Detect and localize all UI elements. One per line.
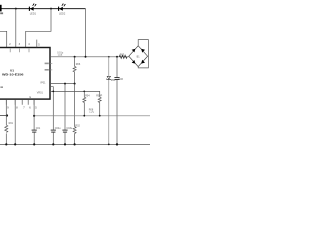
node riser xyxy=(85,56,87,58)
svg-text:LED2: LED2 xyxy=(59,12,66,15)
svg-text:R01: R01 xyxy=(9,122,14,125)
wire OSC line to bridge xyxy=(50,56,129,58)
resistor R02 bottom xyxy=(73,124,80,144)
pin stub right 2 xyxy=(50,69,52,71)
bridge rectifier B1 xyxy=(129,46,148,67)
wire left edge jog to IC pin xyxy=(0,31,7,47)
wire node B jog to IC pin xyxy=(26,9,51,48)
svg-text:G: G xyxy=(29,96,31,99)
svg-text:1.2V: 1.2V xyxy=(89,111,94,114)
LED D2 xyxy=(59,4,66,16)
node C xyxy=(64,83,66,85)
node zener top xyxy=(108,56,110,58)
wire ground bus xyxy=(0,143,150,145)
zener VR2 chain wire xyxy=(108,57,110,144)
capacitor C02 xyxy=(51,127,61,144)
diode bridge arm bottom-right xyxy=(141,60,145,64)
pin name marks inside right edge xyxy=(45,63,49,65)
wire cap3 chain xyxy=(64,84,66,130)
wire pin9 chain xyxy=(5,100,7,144)
node cap top xyxy=(116,56,118,58)
node R xyxy=(116,143,118,145)
svg-text:U1: U1 xyxy=(10,68,14,72)
wire rail corner down to OSC line xyxy=(85,9,87,57)
svg-text:R04P: R04P xyxy=(96,95,102,98)
pin stubs inside top edge xyxy=(10,49,29,53)
wire R06 chain down xyxy=(74,84,76,127)
op IC U1 body xyxy=(0,48,50,100)
svg-text:WD-10-E356: WD-10-E356 xyxy=(2,73,24,77)
svg-text:LED1: LED1 xyxy=(30,12,37,15)
node G xyxy=(6,114,8,116)
capacitor C01 xyxy=(32,127,41,144)
wire left mid stub xyxy=(0,115,7,117)
node K xyxy=(5,143,7,145)
wire node A down to IC pin xyxy=(15,9,17,48)
pin stub ANT xyxy=(36,40,38,48)
resistor R05 inline xyxy=(119,53,127,58)
wire VPP pin run xyxy=(50,83,75,85)
node F xyxy=(83,91,85,93)
diode bridge arm bottom-left xyxy=(132,60,136,64)
node O xyxy=(64,143,66,145)
svg-text:R02: R02 xyxy=(75,124,80,127)
resistor R06 xyxy=(73,57,81,84)
node N xyxy=(52,143,54,145)
node D xyxy=(74,83,76,85)
resistor R0A xyxy=(83,91,90,115)
capacitor C06 chain wire xyxy=(116,57,118,144)
node B xyxy=(50,8,52,10)
pin stub right 1 xyxy=(50,63,52,65)
node M xyxy=(33,143,35,145)
resistor R0B xyxy=(96,95,102,116)
svg-text:VR01: VR01 xyxy=(37,91,44,94)
node Q xyxy=(108,144,110,146)
pin name mark left inside xyxy=(0,86,3,88)
node A xyxy=(15,8,17,10)
svg-text:R06: R06 xyxy=(76,63,81,66)
node E xyxy=(52,91,54,93)
wire pin5 chain xyxy=(33,100,35,130)
LED D1 xyxy=(29,4,36,16)
wire mid bus xyxy=(34,115,150,117)
node L xyxy=(14,143,16,145)
pin stubs bottom xyxy=(6,100,34,105)
node R06 top xyxy=(74,56,76,58)
wire pin8 chain xyxy=(14,100,16,144)
svg-text:R04: R04 xyxy=(85,95,90,98)
node P xyxy=(74,143,76,145)
wire top rail xyxy=(0,8,86,10)
wire jog pin xyxy=(50,87,53,130)
svg-text:C05: C05 xyxy=(58,54,63,57)
node J xyxy=(99,115,101,117)
svg-text:IP01: IP01 xyxy=(41,81,47,84)
resistor R01 xyxy=(5,122,14,132)
wire bridge top loop xyxy=(138,40,148,68)
capacitor C03 xyxy=(62,127,72,144)
diode bridge arm top-left xyxy=(132,49,136,53)
capacitor C06 xyxy=(114,78,123,82)
connector J1 xyxy=(0,5,2,12)
wire VR0 pin run xyxy=(50,91,100,97)
node H xyxy=(33,115,35,117)
diode bridge arm top-right xyxy=(141,49,145,53)
node I xyxy=(83,115,85,117)
svg-text:C06: C06 xyxy=(119,78,124,81)
zener VR2 xyxy=(106,76,116,82)
